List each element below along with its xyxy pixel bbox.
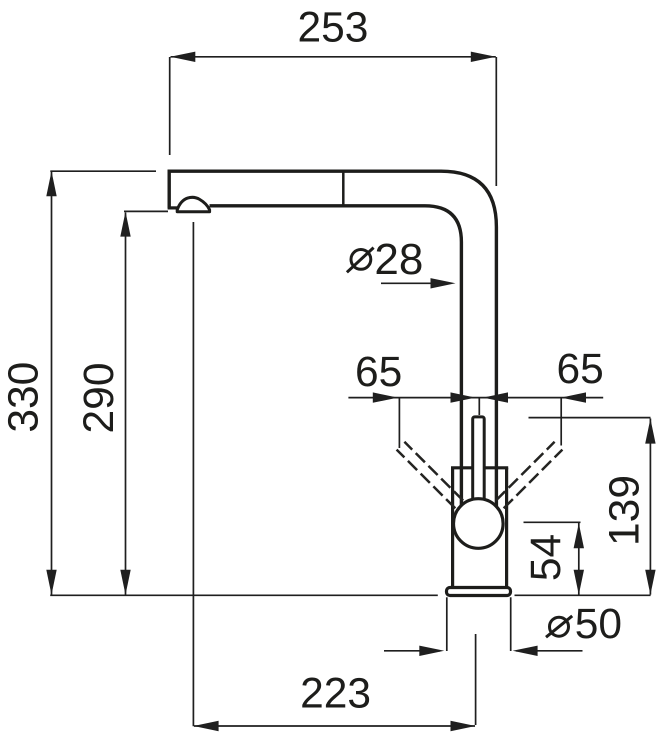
diameter 50 extension lines and arrows: [384, 597, 583, 651]
diameter 50 label: [546, 616, 572, 637]
svg-text:54: 54: [523, 534, 570, 581]
body left edge: [451, 468, 454, 588]
dashed lever position right: [496, 442, 563, 509]
sphere joint: [454, 499, 504, 549]
svg-text:50: 50: [575, 601, 622, 648]
dimension 223: [193, 222, 475, 726]
svg-text:65: 65: [355, 349, 402, 396]
svg-text:223: 223: [300, 670, 371, 717]
spray head left edge: [167, 170, 170, 209]
dashed lever position left: [397, 442, 464, 509]
spout top outline and right pipe outer edge: [168, 171, 497, 510]
baseline reference line: [50, 594, 650, 596]
svg-text:330: 330: [0, 362, 47, 433]
lever shaft: [473, 417, 485, 512]
spout bottom edge and pipe inner edge: [210, 206, 462, 510]
diameter 28 arrow: [381, 282, 450, 284]
dimension 139: [529, 418, 651, 595]
dimension 330 vertical line: [50, 171, 156, 594]
svg-text:65: 65: [557, 346, 604, 393]
diameter 28 label: [347, 248, 374, 273]
dimension 290 vertical line: [124, 211, 168, 594]
svg-text:290: 290: [76, 363, 123, 434]
aerator dome: [177, 197, 209, 211]
dimension 65-65 line: [348, 398, 603, 448]
base flange: [447, 588, 511, 596]
spray head divider line: [342, 171, 345, 206]
spray head bottom segment: [168, 206, 179, 209]
body top edge: [451, 466, 508, 469]
body right edge: [505, 468, 508, 588]
svg-text:139: 139: [602, 475, 649, 546]
dimension 253 line with arrows: [170, 57, 497, 186]
svg-text:253: 253: [298, 5, 369, 52]
svg-text:28: 28: [374, 235, 423, 284]
dimension 54: [524, 522, 581, 595]
